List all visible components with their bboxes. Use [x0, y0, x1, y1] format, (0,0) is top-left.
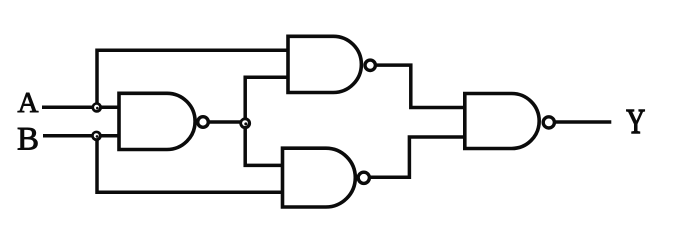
- junction on net B: [91, 131, 102, 142]
- bubble U3: [358, 172, 369, 183]
- bubble U2: [365, 60, 375, 70]
- NAND gate U2 (top): [288, 36, 361, 92]
- NAND gate U4 (output): [465, 94, 539, 149]
- bubble U1: [198, 117, 209, 128]
- NAND gate U3 (bottom): [283, 148, 356, 207]
- wire bottom gate output up to final gate lower input: [364, 137, 465, 177]
- bubble U4: [543, 117, 554, 128]
- junction B hole: [94, 133, 99, 138]
- junction A hole: [94, 105, 99, 110]
- wire B branch down to bottom rail: [97, 134, 283, 192]
- junction B inner speck: [96, 135, 99, 138]
- junction N1 hole: [242, 120, 248, 126]
- junction A inner speck: [96, 107, 99, 110]
- wire node down to bottom gate upper input: [245, 121, 282, 165]
- junction N1 inner speck: [244, 122, 247, 125]
- svg-text:B: B: [17, 121, 39, 157]
- wire top gate output down to final gate upper input: [370, 65, 465, 107]
- junction node N1: [239, 117, 251, 129]
- wire B lead: [43, 134, 119, 138]
- svg-text:A: A: [18, 87, 39, 119]
- wire A lead: [42, 106, 119, 110]
- junction on net A: [92, 102, 103, 113]
- wire gate1 output to node: [196, 120, 245, 124]
- svg-text:Y: Y: [626, 101, 645, 141]
- wire A branch up to top rail: [97, 50, 288, 109]
- NAND gate U1 (inputs A,B): [119, 93, 195, 149]
- wire node up to top gate lower input: [245, 77, 288, 125]
- wire final output to Y: [550, 120, 611, 124]
